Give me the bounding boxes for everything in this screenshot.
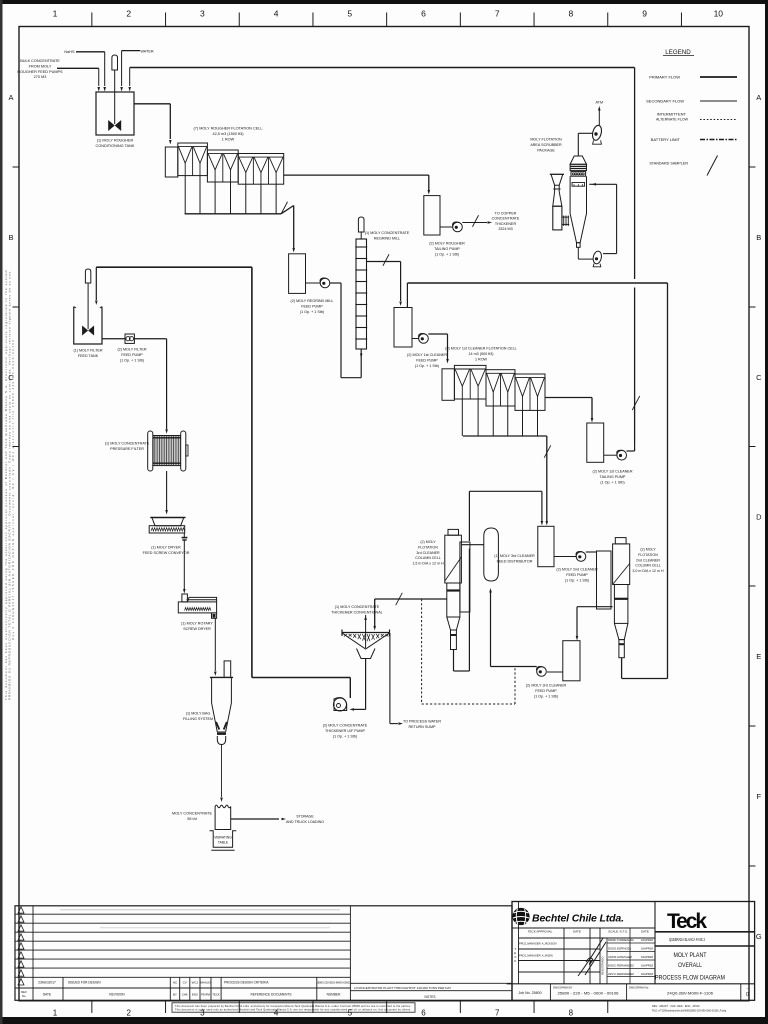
svg-text:BULK CONCENTRATE: BULK CONCENTRATE (20, 59, 60, 63)
pump moly filter feed pump (102, 338, 125, 340)
svg-text:THICKENER CONVENTIONAL: THICKENER CONVENTIONAL (331, 610, 382, 614)
table vibrating table (210, 831, 237, 848)
svg-text:Rev.0 23AUG2017 ISSUED FOR D: Rev.0 23AUG2017 ISSUED FOR DESIGN approv… (11, 340, 15, 640)
svg-text:(1 Op. + 1 Stb): (1 Op. + 1 Stb) (534, 694, 558, 698)
svg-text:ISSUED FOR DESIGN: ISSUED FOR DESIGN (68, 981, 101, 985)
svg-text:TO PROCESS WATER: TO PROCESS WATER (403, 720, 441, 724)
wire scrubber bottom to pump (577, 247, 579, 259)
svg-text:MAAJO: MAAJO (200, 981, 211, 985)
wire rotary dryer to bag filling (214, 618, 216, 671)
svg-text:TECK: TECK (212, 993, 220, 997)
svg-text:(1) MOLY ROTARY: (1) MOLY ROTARY (181, 622, 213, 626)
svg-text:CHK: CHK (182, 993, 188, 997)
flotation 1st cleaner cells group 1 (454, 365, 486, 399)
svg-text:(2) MOLY FILTER: (2) MOLY FILTER (117, 348, 146, 352)
svg-text:NOTES: NOTES (425, 995, 436, 999)
svg-text:ENG: ENG (192, 993, 198, 997)
flotation rougher cells group 2 (207, 150, 238, 182)
svg-text:24Q0-2BV-M000-F-1106: 24Q0-2BV-M000-F-1106 (667, 992, 713, 996)
svg-text:23AUG2017: 23AUG2017 (38, 981, 56, 985)
svg-text:(1) MOLY FILTER: (1) MOLY FILTER (73, 349, 102, 353)
column 2nd cleaner column cell (597, 551, 612, 609)
svg-text:3324 M3: 3324 M3 (498, 227, 512, 231)
svg-text:1: 1 (53, 1009, 58, 1018)
svg-text:PROJ_MANAGER: A.JASEN: PROJ_MANAGER: A.JASEN (519, 954, 553, 958)
svg-text:5: 5 (347, 9, 352, 19)
tank rougher bank feed box (165, 147, 178, 177)
svg-text:16APR18: 16APR18 (641, 972, 653, 976)
fan scrubber exhaust fan (591, 124, 603, 141)
svg-text:RETURN SUMP: RETURN SUMP (408, 725, 436, 729)
svg-text:(1 Op. + 1 Stb): (1 Op. + 1 Stb) (300, 310, 324, 314)
svg-text:16APR18: 16APR18 (641, 947, 653, 951)
wire thickener underflow (365, 659, 367, 710)
svg-text:(2) MOLY CONCENTRATE: (2) MOLY CONCENTRATE (323, 724, 368, 728)
svg-text:F: F (757, 792, 762, 801)
svg-text:PROJ_MANAGER: A.JACKSON: PROJ_MANAGER: A.JACKSON (519, 942, 557, 946)
tank 3rd cleaner feed pump box (563, 641, 580, 681)
svg-text:TABLE: TABLE (218, 841, 229, 845)
svg-text:C.FERNANDEZ: C.FERNANDEZ (614, 972, 634, 976)
svg-text:BY: BY (173, 993, 177, 997)
svg-text:DATE: DATE (43, 993, 51, 997)
pump 1st cleaner tailing pump (604, 454, 617, 456)
wire 3rd column concentrate to thickener (375, 598, 447, 600)
flotation 1st cleaner cells group 2 (486, 370, 515, 406)
svg-text:DWG DRAWN BY: DWG DRAWN BY (553, 987, 573, 990)
svg-text:APV: APV (608, 972, 614, 976)
svg-text:42,5 m3 (1500 ft3): 42,5 m3 (1500 ft3) (212, 132, 244, 136)
pump moly rougher tailing pump (440, 226, 453, 228)
svg-text:(1 Op. + 1 Stb): (1 Op. + 1 Stb) (600, 480, 624, 484)
svg-text:16APR18: 16APR18 (641, 964, 653, 968)
pump 1st cleaner feed pump (412, 338, 419, 340)
wire distributor to 3rd column (461, 544, 483, 546)
svg-text:(2) MOLY: (2) MOLY (640, 548, 656, 552)
pump 2nd cleaner feed pump (554, 556, 576, 558)
svg-text:(1 Op. + 1 Stb): (1 Op. + 1 Stb) (120, 358, 144, 362)
wire rougher concentrate header (184, 176, 186, 214)
wire filter feed pump to pressure filter (134, 338, 166, 340)
tank regrind mill feed pump box (289, 254, 306, 294)
svg-text:3rd CLEANER: 3rd CLEANER (416, 551, 440, 555)
wire 2nd column side outlet (577, 606, 613, 608)
svg-text:QUEBRADA BLANCA FASE 2: QUEBRADA BLANCA FASE 2 (669, 937, 705, 942)
svg-text:SCALE: N.T.S.: SCALE: N.T.S. (608, 930, 628, 934)
svg-text:AREA SCRUBBER: AREA SCRUBBER (530, 143, 562, 147)
revision table grid (15, 906, 512, 1001)
svg-text:PRIMARY FLOW: PRIMARY FLOW (649, 75, 680, 80)
svg-text:CONDITIONING TANK: CONDITIONING TANK (96, 144, 135, 148)
tank 1st cleaner bank feed box (442, 369, 454, 401)
svg-text:16APR18: 16APR18 (641, 955, 653, 959)
left margin rotated note text (4, 269, 15, 700)
svg-text:~: ~ (746, 987, 748, 991)
svg-text:270 M3: 270 M3 (34, 75, 47, 79)
svg-text:LEGEND: LEGEND (665, 49, 691, 56)
svg-text:TO COPPER: TO COPPER (495, 212, 517, 216)
svg-text:FEED PUMP: FEED PUMP (121, 353, 143, 357)
svg-text:Bechtel Chile Ltda.: Bechtel Chile Ltda. (532, 913, 624, 925)
svg-text:MOLY FLOTATION: MOLY FLOTATION (530, 138, 562, 142)
svg-text:14 m3 (500 ft3): 14 m3 (500 ft3) (468, 352, 493, 356)
svg-text:1 ROW: 1 ROW (475, 357, 488, 361)
svg-text:1/CONCENTRATOR PLANT THROUGHPU: 1/CONCENTRATOR PLANT THROUGHPUT 140,000 … (354, 986, 451, 990)
svg-text:BATTERY LIMIT: BATTERY LIMIT (651, 137, 681, 142)
svg-text:NaHS: NaHS (64, 50, 75, 54)
svg-text:STANDARD SAMPLER: STANDARD SAMPLER (649, 162, 688, 166)
svg-text:(7) MOLY ROUGHER FLOTATION CEL: (7) MOLY ROUGHER FLOTATION CELL (194, 127, 263, 131)
wire 1st cleaner pump discharge (428, 333, 447, 335)
svg-text:(8) MOLY 1st CLEANER FLOTATION: (8) MOLY 1st CLEANER FLOTATION CELL (445, 347, 516, 351)
svg-text:7: 7 (495, 1009, 500, 1018)
sampler on 1st cleaner concentrate (544, 445, 551, 457)
svg-text:FEED PUMP: FEED PUMP (416, 358, 438, 362)
svg-text:FEED SCREW CONVEYOR: FEED SCREW CONVEYOR (143, 551, 190, 555)
svg-text:REGISTRADO: REGISTRADO (601, 956, 605, 975)
svg-text:25800-220-EDS-MK00-00001: 25800-220-EDS-MK00-00001 (316, 981, 351, 985)
svg-text:REGRIND MILL: REGRIND MILL (374, 236, 400, 240)
svg-text:C.TORREALBA: C.TORREALBA (614, 938, 634, 942)
wire scrubber to fan (578, 132, 593, 134)
svg-text:ALTERNATE FLOW: ALTERNATE FLOW (656, 118, 689, 122)
svg-text:INTERMITTENT: INTERMITTENT (657, 112, 687, 117)
svg-text:WCJ: WCJ (192, 981, 199, 985)
svg-text:THICKENER U/F PUMP: THICKENER U/F PUMP (325, 729, 365, 733)
tank moly filter feed tank (74, 307, 102, 344)
svg-text:1: 1 (53, 9, 58, 19)
svg-text:R.GONZALEZ: R.GONZALEZ (614, 955, 632, 959)
filter moly concentrate pressure filter (153, 436, 181, 466)
svg-text:THICKENER: THICKENER (495, 222, 517, 226)
svg-text:(2) MOLY 1st CLEANER: (2) MOLY 1st CLEANER (407, 353, 447, 357)
svg-text:3,0 m DIA x 12 m H: 3,0 m DIA x 12 m H (632, 569, 664, 573)
svg-text:REV DRAFT CHK DES ENG: REV DRAFT CHK DES ENG APVD (652, 1004, 700, 1008)
svg-text:B: B (8, 233, 13, 242)
svg-text:16APR18: 16APR18 (641, 938, 653, 942)
svg-text:PRESSURE FILTER: PRESSURE FILTER (110, 447, 144, 451)
svg-text:PACKAGE: PACKAGE (537, 148, 555, 152)
svg-text:Teck: Teck (667, 910, 707, 933)
svg-text:FLOTATION: FLOTATION (418, 545, 438, 549)
tank moly rougher conditioning tank (96, 92, 134, 135)
wire 3rd cleaner tails recycle top (469, 490, 542, 492)
svg-text:TECK APPROVAL: TECK APPROVAL (528, 930, 553, 934)
svg-text:(1 Op. + 1 Stb): (1 Op. + 1 Stb) (565, 578, 589, 582)
svg-text:25800 - 220 - M5 - 0000 - 0010: 25800 - 220 - M5 - 0000 - 00106 (558, 992, 619, 996)
svg-text:E: E (756, 652, 761, 661)
svg-text:FLOTATION: FLOTATION (638, 553, 658, 557)
svg-text:Job No. 25800: Job No. 25800 (518, 991, 541, 995)
wire mill discharge (367, 261, 401, 263)
svg-text:(1) MOLY DRYER: (1) MOLY DRYER (151, 546, 181, 550)
tank 1st cleaner tailing pump box (587, 423, 604, 462)
svg-text:(2) MOLY: (2) MOLY (420, 540, 436, 544)
title block grid (512, 902, 755, 1001)
svg-text:G.ESPINOZA: G.ESPINOZA (614, 947, 631, 951)
svg-text:4: 4 (274, 9, 279, 19)
wire underflow pump discharge to filter feed tank (349, 678, 351, 699)
svg-text:OVERALL: OVERALL (678, 962, 702, 969)
svg-text:(1) MOLY CONCENTRATE: (1) MOLY CONCENTRATE (365, 231, 410, 235)
svg-text:TAILING PUMP: TAILING PUMP (434, 247, 460, 251)
wire regrind pump discharge (330, 282, 341, 284)
svg-text:(1) MOLY ROUGHER: (1) MOLY ROUGHER (97, 139, 134, 143)
svg-text:FEED PUMP: FEED PUMP (301, 304, 323, 308)
svg-text:(1) MOLY BAG: (1) MOLY BAG (186, 712, 211, 716)
sampler on mill discharge (383, 254, 389, 265)
wire 1st cleaner tailing pump discharge (627, 450, 635, 452)
pump scrubber recirculation pump (592, 250, 602, 264)
column 3rd cleaner column cell (460, 542, 470, 612)
svg-text:ATM: ATM (596, 101, 604, 105)
svg-text:10: 10 (714, 9, 724, 19)
svg-text:(2) MOLY ROUGHER: (2) MOLY ROUGHER (429, 242, 465, 246)
svg-text:(2) MOLY 2nd CLEANER: (2) MOLY 2nd CLEANER (556, 568, 598, 572)
scrubber vessel (570, 156, 586, 164)
svg-text:0: 0 (746, 992, 749, 998)
svg-text:PROCESS FLOW DIAGRAM: PROCESS FLOW DIAGRAM (655, 974, 725, 981)
dryer moly rotary screw dryer (178, 602, 216, 613)
svg-text:REVISION: REVISION (109, 993, 125, 997)
svg-text:FEED PUMP: FEED PUMP (535, 689, 557, 693)
venturi scrubber inlet (550, 173, 564, 175)
svg-text:STORAGE: STORAGE (296, 815, 314, 819)
bag moly concentrate (215, 805, 231, 829)
svg-text:FROM MOLY: FROM MOLY (29, 64, 52, 68)
svg-text:COLUMN CELL: COLUMN CELL (635, 564, 661, 568)
svg-text:AND TRUCK LOADING: AND TRUCK LOADING (286, 820, 324, 824)
sampler on rougher concentrate (281, 202, 287, 213)
svg-text:6: 6 (421, 9, 426, 19)
svg-text:(2) MOLY 1st CLEANER: (2) MOLY 1st CLEANER (592, 470, 632, 474)
svg-text:PD/PM: PD/PM (201, 993, 211, 997)
svg-text:(2) MOLY 3rd CLEANER: (2) MOLY 3rd CLEANER (526, 684, 567, 688)
wire bag filling to concentrate (221, 745, 223, 798)
svg-text:K: K (514, 959, 516, 963)
svg-text:No.: No. (22, 994, 27, 998)
svg-text:This document has been prepare: This document has been prepared by Becht… (175, 1004, 411, 1008)
pump 3rd cleaner feed pump (547, 671, 563, 673)
svg-text:FILE: s!T128\hardware\bechtel\: FILE: s!T128\hardware\bechtel\M5\25800-2… (652, 1010, 727, 1013)
wire bulk concentrate feed line (57, 67, 99, 69)
svg-text:2: 2 (126, 1009, 131, 1018)
svg-text:2: 2 (126, 9, 131, 19)
svg-text:9: 9 (642, 9, 647, 19)
wire water feed line (122, 50, 140, 52)
svg-text:A: A (756, 93, 761, 102)
svg-text:C.FERNANDEZ: C.FERNANDEZ (614, 964, 634, 968)
svg-text:This document is to be used on: This document is to be used only as auth… (175, 1008, 411, 1012)
wire filter to dryer feed screw (166, 471, 168, 510)
flotation rougher cells group 3 (238, 154, 284, 185)
wire 2nd cleaner pump to column (586, 551, 597, 553)
svg-text:1 ROW: 1 ROW (222, 137, 235, 141)
svg-text:MOLY CONCENTRATE: MOLY CONCENTRATE (172, 812, 213, 816)
wire screw conveyor to rotary dryer (183, 540, 185, 589)
flotation 1st cleaner cells group 3 (515, 374, 545, 410)
sampler on thickener feed (396, 593, 403, 605)
svg-text:NUMBER: NUMBER (327, 993, 342, 997)
thickener moly concentrate thickener (342, 632, 390, 634)
svg-text:FEED DISTRIBUTOR: FEED DISTRIBUTOR (497, 559, 533, 563)
svg-text:(1) MOLY 3rd CLEANER: (1) MOLY 3rd CLEANER (494, 554, 535, 558)
svg-text:8: 8 (569, 9, 574, 19)
svg-text:FEED TANK: FEED TANK (78, 354, 99, 358)
svg-text:(1) MOLY CONCENTRATE: (1) MOLY CONCENTRATE (105, 442, 150, 446)
svg-text:(1 Op. + 1 Stb): (1 Op. + 1 Stb) (435, 252, 459, 256)
svg-text:SCREW DRYER: SCREW DRYER (183, 627, 211, 631)
svg-text:CV: CV (183, 981, 187, 985)
svg-text:REFERENCE DOCUMENTS: REFERENCE DOCUMENTS (250, 993, 291, 997)
svg-text:D: D (756, 513, 762, 522)
tank 2nd cleaner feed pump box (538, 526, 554, 566)
svg-text:FILLING SYSTEM: FILLING SYSTEM (183, 717, 213, 721)
svg-text:PROCESS DESIGN CRITERIA: PROCESS DESIGN CRITERIA (224, 981, 269, 985)
svg-text:B: B (756, 233, 761, 242)
svg-text:ROUGHER FEED PUMPS: ROUGHER FEED PUMPS (17, 70, 63, 74)
wire alternate flow dashed (421, 599, 423, 704)
wire fan exhaust to atm (598, 110, 600, 125)
svg-text:TAILING PUMP: TAILING PUMP (600, 475, 626, 479)
wire 1st cleaner tails line (545, 397, 592, 399)
svg-text:2nd CLEANER: 2nd CLEANER (636, 558, 660, 562)
wire thickener overflow (389, 633, 391, 724)
wire scrubber recirculation (589, 183, 616, 185)
svg-text:1,5 m DIA x 12 m H: 1,5 m DIA x 12 m H (412, 562, 444, 566)
svg-text:(1) MOLY CONCENTRATE: (1) MOLY CONCENTRATE (335, 605, 380, 609)
svg-text:VIBRATING: VIBRATING (214, 836, 232, 840)
svg-text:A: A (8, 93, 13, 102)
vessel 3rd cleaner feed distributor (484, 528, 499, 581)
svg-text:C: C (756, 373, 762, 382)
svg-text:WATER: WATER (140, 50, 154, 54)
wire tank outlet to rougher bank (134, 103, 170, 105)
svg-text:(1 Op. + 1 Stb): (1 Op. + 1 Stb) (333, 734, 357, 738)
svg-text:DATE: DATE (641, 930, 649, 934)
sampler on rougher tails (472, 215, 478, 226)
svg-text:COLUMN CELL: COLUMN CELL (415, 556, 441, 560)
tank 1st cleaner feed pump box (394, 308, 412, 348)
pump regrind mill feed pump (306, 282, 321, 284)
hopper moly bag filling system (224, 661, 231, 678)
conveyor moly dryer feed screw (152, 518, 184, 526)
svg-text:MOLY PLANT: MOLY PLANT (674, 952, 707, 959)
logo bechtel globe (512, 908, 529, 925)
svg-text:FEED PUMP: FEED PUMP (566, 573, 588, 577)
svg-text:8: 8 (569, 1009, 574, 1018)
wire 3rd cleaner pump to distributor (491, 666, 537, 668)
wire cleaner tails recycle header (130, 67, 635, 69)
svg-text:CONCENTRATE: CONCENTRATE (492, 217, 520, 221)
svg-text:55 t/d: 55 t/d (187, 817, 197, 821)
mill moly concentrate regrind mill (358, 217, 364, 232)
outer page edge strips (0, 0, 768, 4)
bottom disclaimer note (172, 1003, 415, 1012)
sampler on recycle riser (632, 396, 640, 410)
wire NaHS feed line (76, 51, 105, 53)
wire 3rd column tails riser (453, 650, 455, 672)
svg-text:(1 Op. + 1 Stb): (1 Op. + 1 Stb) (415, 364, 439, 368)
wire rougher tails line (284, 174, 429, 176)
svg-text:(2) MOLY REGRIND MILL: (2) MOLY REGRIND MILL (291, 299, 334, 303)
svg-text:NC: NC (173, 981, 178, 985)
wire concentrate to storage (231, 818, 279, 820)
svg-text:DWG DRAWN No:: DWG DRAWN No: (629, 987, 649, 990)
svg-text:6: 6 (421, 1009, 426, 1018)
svg-text:DATE: DATE (573, 930, 581, 934)
tank rougher tailing pump box (424, 196, 440, 235)
svg-text:SECONDARY FLOW: SECONDARY FLOW (646, 99, 684, 104)
wire cleaner tails recycle riser (634, 68, 636, 280)
pump thickener underflow pump (334, 698, 347, 711)
wire rougher tails to copper thickener (462, 222, 487, 224)
svg-text:3: 3 (200, 9, 205, 19)
flotation rougher cells group 1 (178, 143, 208, 176)
svg-text:G: G (756, 932, 762, 941)
wire 2nd cleaner tails recycle (407, 282, 667, 284)
svg-text:7: 7 (495, 9, 500, 19)
wire 1st cleaner concentrate header (461, 399, 463, 436)
